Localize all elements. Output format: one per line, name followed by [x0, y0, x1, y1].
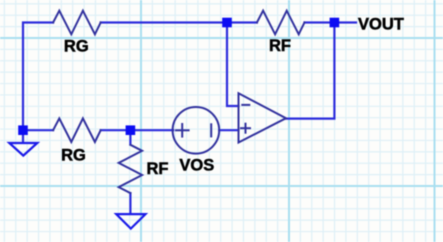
- svg-text:VOS: VOS: [179, 156, 214, 174]
- ground 2 (bottom): [116, 214, 145, 229]
- wire minus input: [227, 23, 239, 107]
- minus symbol: [242, 104, 249, 106]
- wire op-amp output: [286, 23, 335, 119]
- wire node B down to RF2: [129, 130, 131, 144]
- wire RG2 to node B: [101, 129, 131, 131]
- voltage source VOS: [173, 107, 220, 154]
- wire node B to VOS: [130, 129, 173, 131]
- svg-text:RG: RG: [61, 146, 86, 164]
- wire VOS to plus input: [219, 129, 238, 131]
- plus symbol: [241, 127, 250, 129]
- node C junction: [222, 18, 232, 28]
- op-amp U1: [239, 93, 287, 142]
- wire node A to RG2: [23, 129, 53, 131]
- node A junction: [18, 125, 28, 135]
- wire top middle: [101, 21, 227, 23]
- plus sign: [176, 129, 189, 131]
- resistor RG1 (top): [53, 11, 101, 35]
- ground 1 (left): [9, 143, 37, 156]
- minus bar: [210, 124, 212, 136]
- wire RF top leads: [227, 21, 257, 23]
- resistor RG2 (bottom): [53, 118, 101, 142]
- wire node D to VOUT: [334, 21, 356, 23]
- wire RF2 to ground stub: [129, 193, 131, 214]
- svg-text:RF: RF: [147, 160, 169, 178]
- svg-text:RG: RG: [64, 38, 89, 56]
- resistor RF2 (vertical): [119, 145, 142, 193]
- wire top-left corner to RG1 and across top: [23, 23, 356, 214]
- resistor RF1 (top): [257, 11, 305, 35]
- node B junction: [126, 125, 136, 135]
- node D junction: [330, 18, 340, 28]
- wire left vertical: [23, 23, 53, 131]
- wire node A ground stub: [22, 130, 24, 143]
- svg-text:VOUT: VOUT: [358, 15, 404, 33]
- svg-text:RF: RF: [269, 37, 291, 55]
